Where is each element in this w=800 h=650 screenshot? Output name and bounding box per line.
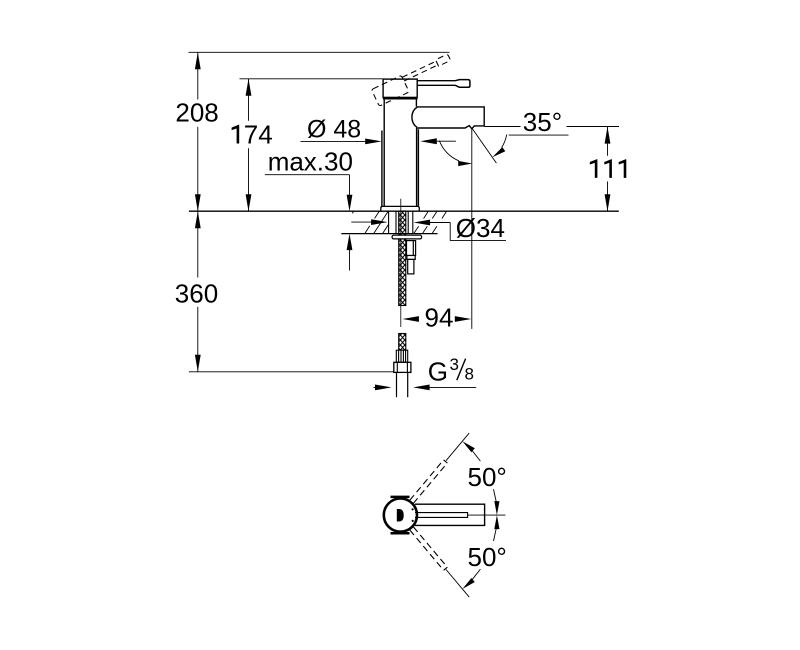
svg-text:50°: 50° — [468, 542, 507, 572]
svg-text:94: 94 — [425, 303, 454, 333]
outlet vertical line — [471, 129, 473, 329]
faucet head (cartridge housing) — [383, 79, 417, 97]
label G 3/8 — [374, 355, 477, 390]
extension line top (208 level) — [189, 51, 450, 53]
label diameter 34 — [351, 213, 506, 243]
dimension 174 — [232, 79, 273, 211]
faucet body inner edges — [383, 99, 385, 206]
extension line hose end (360 bottom) — [189, 371, 394, 373]
svg-text:360: 360 — [175, 278, 218, 308]
threaded shank walls through counter hole — [389, 211, 413, 234]
base flange — [381, 206, 420, 211]
top view circle (body) — [384, 498, 417, 531]
connection tube — [397, 372, 408, 397]
top view spout outline — [415, 504, 485, 525]
upper 50 deg label — [462, 441, 506, 515]
lower 50 deg label — [462, 515, 506, 589]
label max.30 — [265, 146, 353, 270]
extension line 174 level — [240, 78, 383, 80]
svg-text:G: G — [428, 356, 448, 386]
svg-text:Ø 48: Ø 48 — [307, 116, 361, 144]
top view lever outline — [415, 513, 468, 518]
dimension 94 — [402, 303, 471, 333]
svg-text:3: 3 — [450, 355, 459, 374]
label 35 degrees — [439, 107, 568, 166]
svg-text:Ø34: Ø34 — [456, 213, 505, 243]
countertop hatching left — [352, 211, 388, 233]
svg-text:74: 74 — [244, 120, 273, 150]
top view centerline — [468, 514, 506, 516]
countertop top line — [189, 210, 619, 212]
dimension 111 — [484, 127, 626, 212]
mounting washer — [392, 235, 422, 239]
solid lever handle — [417, 80, 470, 88]
countertop hatching right — [414, 211, 447, 233]
G3/8 nut — [394, 362, 411, 372]
countertop bottom line — [341, 233, 437, 235]
dimension 360 — [175, 211, 218, 372]
lever pin (D shape) — [397, 509, 404, 522]
lower dashed lever ghost — [410, 527, 448, 570]
lower 50 deg ray — [446, 570, 469, 598]
svg-text:max.30: max.30 — [268, 146, 353, 176]
top tab — [391, 496, 410, 499]
dashed raised lever (ghost) — [371, 53, 455, 106]
mounting stud with nut — [407, 241, 416, 274]
faucet centerline (vertical axis) — [400, 199, 402, 327]
upper dashed lever ghost — [410, 460, 448, 503]
svg-text:50°: 50° — [468, 462, 507, 492]
spout — [412, 107, 484, 129]
spout-body intersection curve — [412, 107, 417, 127]
faucet body outer edges (diameter 48) — [381, 131, 383, 207]
upper 50 deg ray — [446, 433, 469, 461]
svg-text:35°: 35° — [523, 107, 562, 137]
braided hose lower segment — [399, 334, 406, 351]
water stream line 35 deg — [472, 129, 496, 164]
bottom tab — [391, 532, 410, 535]
svg-text:208: 208 — [175, 98, 218, 128]
hose crimp sleeve — [396, 350, 407, 362]
braided hose upper segment — [399, 211, 406, 306]
label diameter 48 — [301, 116, 456, 145]
dimension 208 — [175, 52, 218, 211]
svg-text:8: 8 — [465, 365, 474, 384]
detail dots — [412, 508, 414, 510]
head/body joint thick line — [383, 97, 418, 99]
